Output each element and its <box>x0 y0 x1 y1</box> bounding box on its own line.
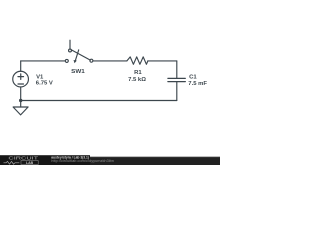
svg-text:http://circuitlab.com/c/dyyumz: http://circuitlab.com/c/dyyumzkh3ibn <box>51 159 114 163</box>
svg-text:7.5 mF: 7.5 mF <box>188 81 207 87</box>
voltage source V1 <box>13 71 29 87</box>
ground stub <box>20 101 22 108</box>
svg-text:7.5 kΩ: 7.5 kΩ <box>128 77 146 83</box>
SW1 actuation arrow shaft <box>75 50 78 61</box>
SW1 left terminal <box>65 59 68 62</box>
SW1 lever <box>71 50 90 60</box>
junction node at ground <box>19 99 22 102</box>
resistor R1 <box>127 57 148 64</box>
wire right rail upper (to C1 top plate) <box>176 61 178 78</box>
SW1 actuation arrow head <box>74 60 77 63</box>
svg-text:CIRCUIT: CIRCUIT <box>8 156 38 161</box>
V1 plus sign <box>18 74 24 80</box>
wire top rail, R1 to top-right corner <box>148 60 177 62</box>
logo LAB box <box>21 161 38 165</box>
wire top rail, corner to SW1 left terminal <box>21 60 66 62</box>
logo zigzag <box>4 161 20 164</box>
svg-text:SW1: SW1 <box>71 69 85 75</box>
ground <box>13 107 28 115</box>
svg-text:C1: C1 <box>189 75 197 81</box>
wire bottom rail <box>21 100 177 102</box>
svg-text:6.75 V: 6.75 V <box>36 81 53 87</box>
wire left rail top (V1 top to top rail) <box>20 61 22 71</box>
SW1 right terminal <box>90 59 93 62</box>
wire right rail lower (C1 bottom plate to bottom rail) <box>176 82 178 101</box>
wire V1 bottom to ground junction <box>20 87 22 101</box>
V1 minus sign <box>18 83 24 85</box>
watermark logo box <box>0 155 90 165</box>
switch SW1 throw stub <box>69 40 71 49</box>
SW1 top terminal <box>69 49 72 52</box>
svg-text:R1: R1 <box>134 70 142 76</box>
svg-text:V1: V1 <box>36 75 44 81</box>
watermark strip <box>0 157 220 165</box>
capacitor C1 <box>168 78 185 81</box>
wire top rail, SW1 right terminal to R1 <box>93 60 127 62</box>
svg-text:LAB: LAB <box>26 161 34 165</box>
